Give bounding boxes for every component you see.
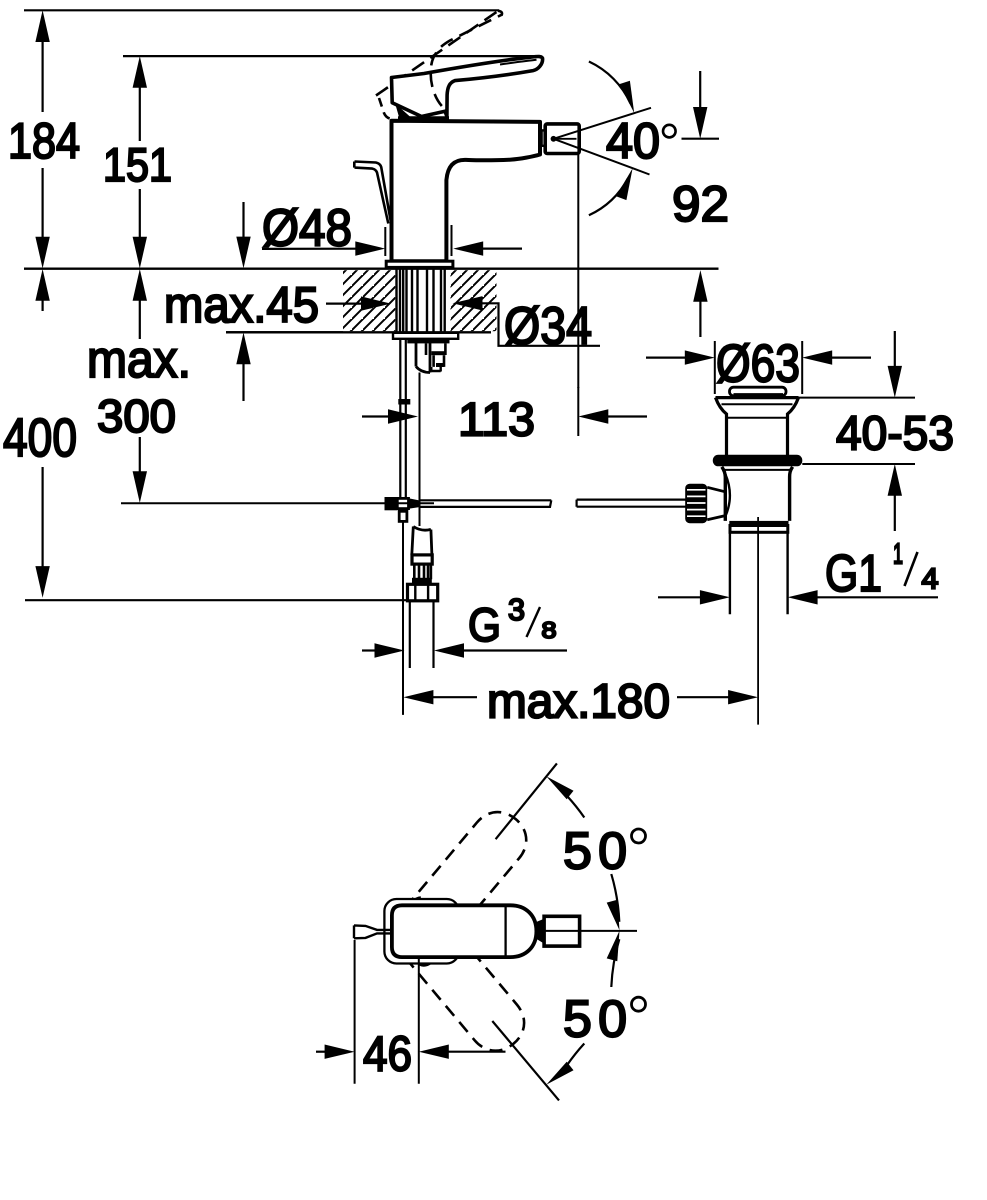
top view aerator neck bbox=[536, 919, 544, 944]
stepped cone bbox=[426, 343, 445, 371]
label 40deg bbox=[606, 112, 676, 169]
counter hatch left bbox=[343, 270, 395, 331]
dimension dia34 leader bbox=[453, 296, 601, 356]
svg-text:max.: max. bbox=[87, 331, 191, 389]
dimension 113 bbox=[362, 387, 647, 447]
label 50deg lower bbox=[563, 991, 646, 1049]
hose tilted tube bbox=[412, 527, 432, 555]
angle leg lower bbox=[492, 1021, 559, 1100]
svg-text:G: G bbox=[468, 599, 501, 652]
dimension 40-53 bbox=[799, 331, 955, 531]
dashed handle raised position line B bbox=[431, 11, 502, 106]
label 50deg upper bbox=[563, 823, 646, 881]
aerator connector bbox=[542, 130, 545, 145]
dashed handle raised position line A bbox=[376, 11, 498, 96]
dimension G3/8 bbox=[362, 592, 567, 658]
dimension 400 bbox=[3, 269, 406, 600]
drain joint bands bbox=[729, 521, 788, 532]
dimension dia48 bbox=[262, 200, 522, 258]
top view body and spout bbox=[392, 905, 537, 957]
rod tee coupler bbox=[385, 497, 419, 510]
faucet body with spout bbox=[392, 121, 541, 261]
spray cone lines bbox=[554, 108, 652, 175]
40 degree arc upper bbox=[589, 62, 634, 114]
dimension 151 bbox=[103, 56, 541, 268]
base plate bbox=[386, 261, 453, 268]
40 degree arc lower bbox=[589, 168, 633, 215]
drain tailpipe bbox=[730, 532, 788, 614]
drain flange bbox=[716, 398, 799, 455]
svg-text:113: 113 bbox=[458, 394, 535, 447]
dimension 92 bbox=[672, 71, 729, 337]
brass tube bbox=[416, 339, 430, 373]
dashed knuckle corner bbox=[379, 98, 396, 119]
hose upper line bbox=[419, 373, 421, 527]
dimension max300 bbox=[87, 269, 434, 503]
top view dashed swing down bbox=[381, 893, 535, 1062]
drain plug cap bbox=[730, 387, 787, 396]
top view barrel joint line bbox=[504, 906, 506, 958]
dimension G1 1/4 bbox=[658, 539, 939, 605]
threaded rod pair bbox=[398, 339, 410, 497]
svg-text:92: 92 bbox=[672, 175, 729, 232]
dimension max45 bbox=[164, 202, 391, 401]
drain centerline bbox=[757, 517, 759, 725]
svg-text:3: 3 bbox=[508, 592, 525, 627]
dimension 184 bbox=[8, 10, 499, 268]
svg-text:46: 46 bbox=[363, 1027, 412, 1082]
top view base plate outline bbox=[384, 899, 458, 964]
lever bottom tip bbox=[397, 106, 412, 120]
svg-text:Ø63: Ø63 bbox=[716, 335, 800, 394]
counter bottom line bbox=[226, 331, 491, 333]
svg-text:300: 300 bbox=[97, 390, 176, 442]
50 degree arc lower bbox=[546, 931, 619, 1085]
drain body bbox=[722, 467, 793, 521]
svg-text:4: 4 bbox=[922, 564, 939, 596]
hose nut stack bbox=[408, 555, 438, 601]
svg-text:184: 184 bbox=[8, 112, 80, 169]
drain knurled knob bbox=[685, 484, 707, 524]
lever handle L1 (solid blade and knuckle) bbox=[392, 57, 543, 117]
svg-text:8: 8 bbox=[542, 617, 557, 643]
shank pipes through counter bbox=[397, 270, 445, 333]
drain seal ring bbox=[713, 455, 803, 467]
shadow bar between lever and body bbox=[398, 116, 449, 121]
knob connector bbox=[707, 487, 725, 519]
spray origin dot bbox=[551, 136, 577, 142]
dimension max180 bbox=[403, 676, 758, 729]
svg-text:40-53: 40-53 bbox=[836, 408, 954, 461]
horizontal pull rod segment 2 bbox=[577, 500, 686, 507]
top view centerline bbox=[545, 930, 638, 932]
spout outlet drop line bbox=[577, 154, 579, 388]
svg-text:151: 151 bbox=[103, 138, 172, 191]
side pull-rod handle bbox=[354, 162, 391, 225]
50 degree arc upper bbox=[546, 776, 619, 930]
top view aerator bbox=[544, 916, 580, 946]
svg-text:40: 40 bbox=[606, 112, 660, 169]
svg-text:max.45: max.45 bbox=[164, 277, 319, 333]
svg-text:G1: G1 bbox=[825, 545, 882, 603]
counter hatch right bbox=[451, 270, 497, 331]
hose below nut bbox=[410, 601, 434, 668]
dimension 46 bbox=[316, 940, 506, 1084]
top view temperature tab bbox=[354, 925, 392, 938]
aerator bbox=[545, 124, 579, 154]
svg-text:400: 400 bbox=[3, 408, 77, 468]
counter top line bbox=[24, 268, 719, 270]
dimension dia63 bbox=[646, 335, 871, 395]
mounting plate under counter bbox=[393, 333, 458, 344]
angle leg upper bbox=[496, 763, 557, 839]
horizontal pull rod segment 1 bbox=[419, 500, 552, 507]
top view dashed swing up bbox=[383, 801, 537, 970]
svg-text:max.180: max.180 bbox=[487, 676, 670, 729]
svg-text:1: 1 bbox=[893, 539, 903, 571]
tee lower tube bbox=[399, 511, 407, 715]
